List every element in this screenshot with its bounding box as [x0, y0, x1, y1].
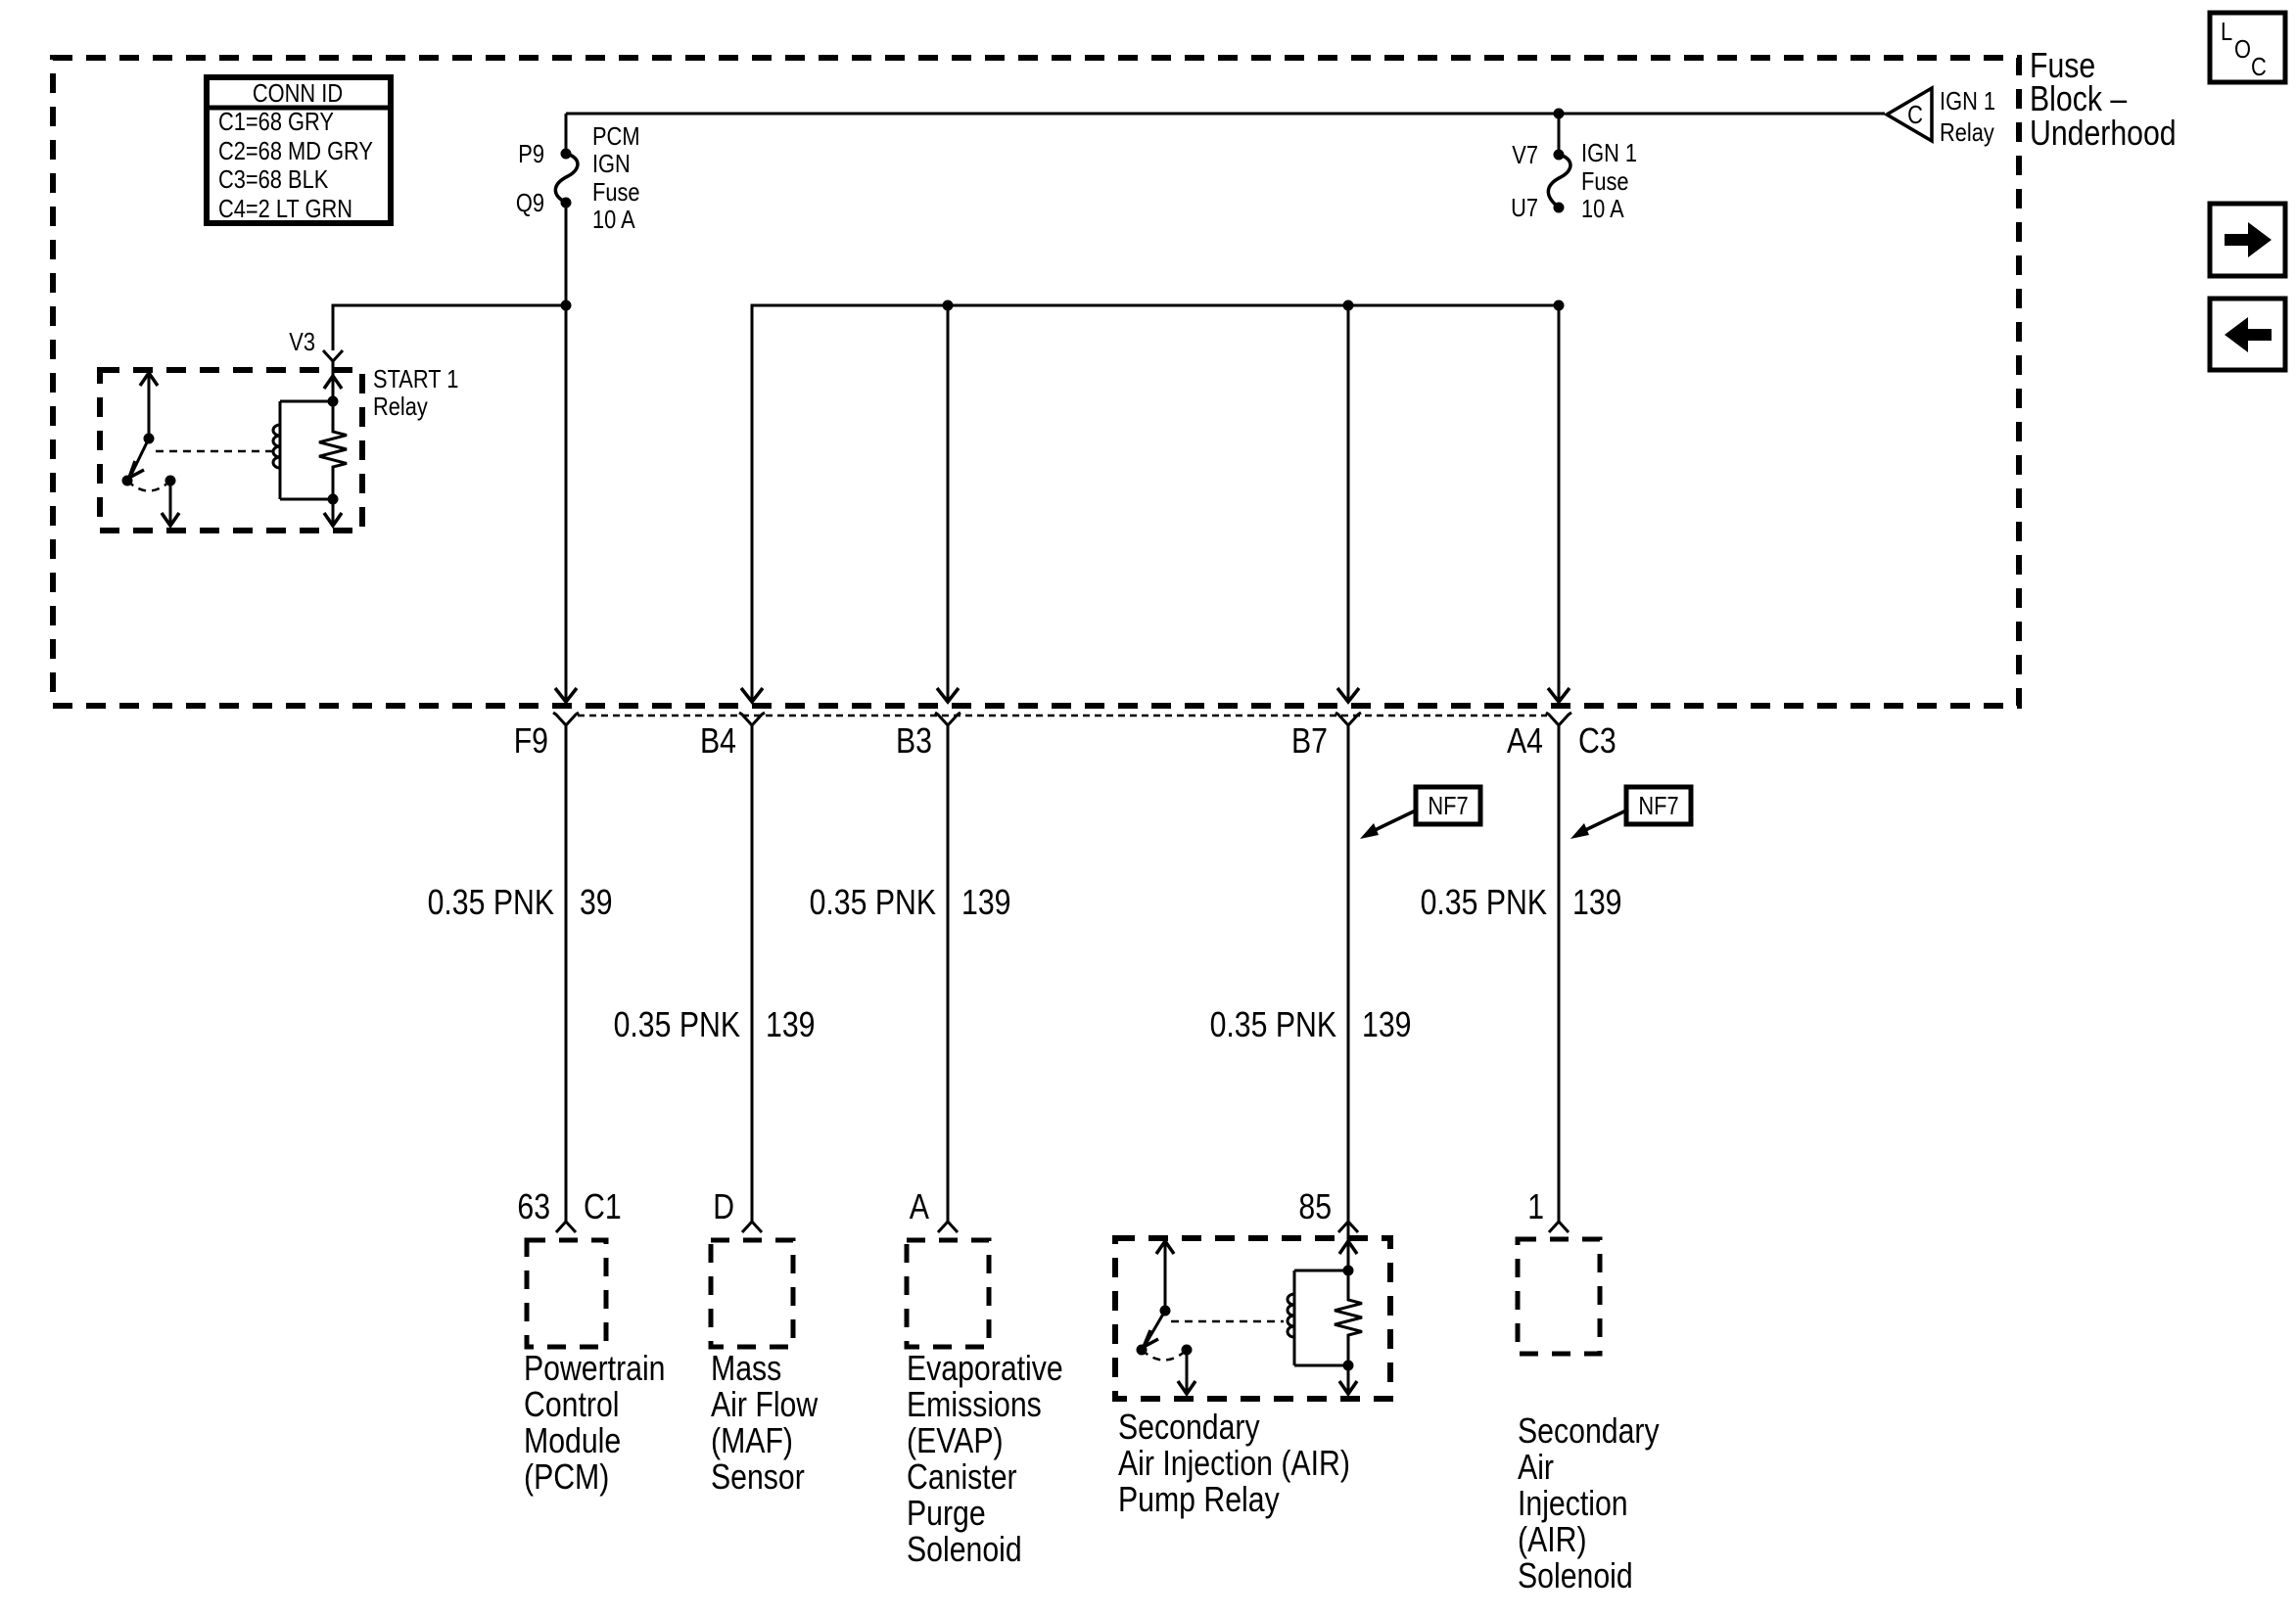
wire 139 PNK drop to AIR solenoid	[1558, 725, 1561, 1222]
wire 39 PNK drop to PCM	[565, 725, 568, 1222]
wire 139 PNK drop to AIR pump relay	[1347, 725, 1350, 1277]
svg-text:Pump Relay: Pump Relay	[1118, 1479, 1280, 1519]
svg-text:U7: U7	[1511, 193, 1538, 222]
svg-text:C1=68 GRY: C1=68 GRY	[218, 107, 334, 136]
navigation box arrow left	[2210, 299, 2285, 370]
svg-text:IGN 1: IGN 1	[1581, 138, 1637, 167]
svg-text:Module: Module	[524, 1420, 621, 1460]
connector F9	[553, 713, 579, 725]
NF7 reference box left	[1360, 787, 1480, 839]
svg-text:Powertrain: Powertrain	[524, 1348, 666, 1388]
svg-text:IGN 1: IGN 1	[1940, 86, 1995, 115]
svg-text:39: 39	[580, 882, 613, 922]
svg-text:PCM: PCM	[592, 121, 640, 151]
wire B7 inside fuse block	[1347, 305, 1350, 702]
wire label 0.35 PNK 39	[428, 882, 613, 922]
wire 139 PNK drop to EVAP solenoid	[947, 725, 950, 1222]
svg-text:Mass: Mass	[711, 1348, 781, 1388]
svg-text:(PCM): (PCM)	[524, 1456, 609, 1497]
svg-text:139: 139	[1362, 1004, 1412, 1044]
junction on top bus at IGN 1 fuse	[1554, 109, 1565, 119]
svg-text:85: 85	[1298, 1186, 1332, 1226]
junction right bus / IGN 1 fuse wire	[1554, 300, 1565, 311]
wire label 0.35 PNK 139 at B4	[614, 1004, 816, 1044]
svg-text:L: L	[2221, 17, 2232, 46]
PCM IGN fuse 10 A	[516, 114, 640, 234]
svg-text:D: D	[713, 1186, 734, 1226]
svg-text:139: 139	[961, 882, 1011, 922]
svg-text:1: 1	[1527, 1186, 1544, 1226]
START 1 relay	[100, 361, 458, 531]
svg-text:Purge: Purge	[907, 1493, 986, 1533]
label: Fuse Block - Underhood	[2030, 45, 2177, 153]
svg-text:C2=68 MD GRY: C2=68 MD GRY	[218, 136, 373, 165]
wire label 0.35 PNK 139 at B3	[810, 882, 1011, 922]
svg-text:0.35 PNK: 0.35 PNK	[1210, 1004, 1336, 1044]
svg-text:0.35 PNK: 0.35 PNK	[614, 1004, 740, 1044]
svg-text:P9: P9	[518, 139, 544, 168]
wire: top ignition feed bus from IGN 1 relay	[566, 113, 1885, 115]
svg-text:V7: V7	[1512, 140, 1538, 169]
EVAP canister purge solenoid connector box	[907, 1240, 1063, 1569]
svg-text:NF7: NF7	[1638, 791, 1678, 820]
svg-text:C4=2 LT GRN: C4=2 LT GRN	[218, 194, 352, 223]
svg-text:B3: B3	[896, 720, 932, 761]
fuse block underhood dashed border	[53, 58, 2019, 706]
connector B3	[935, 713, 961, 725]
svg-text:Air Flow: Air Flow	[711, 1384, 819, 1424]
svg-text:Solenoid: Solenoid	[1518, 1555, 1633, 1595]
wire label 0.35 PNK 139 at B7	[1210, 1004, 1412, 1044]
junction of PCM IGN fuse wire and left bus	[561, 300, 572, 311]
LOC locator box	[2210, 13, 2285, 82]
svg-text:Canister: Canister	[907, 1456, 1017, 1497]
svg-text:Relay: Relay	[1940, 117, 1994, 147]
Secondary Air Injection AIR pump relay	[1115, 1238, 1390, 1519]
junction right bus / B3 wire	[943, 300, 954, 311]
wire label 0.35 PNK 139 at C3	[1421, 882, 1622, 922]
Powertrain Control Module PCM connector box	[524, 1240, 666, 1497]
svg-text:Evaporative: Evaporative	[907, 1348, 1063, 1388]
svg-text:F9: F9	[514, 720, 548, 761]
svg-text:63: 63	[517, 1186, 550, 1226]
svg-text:Control: Control	[524, 1384, 620, 1424]
svg-text:V3: V3	[289, 327, 315, 356]
svg-text:C: C	[1907, 100, 1923, 129]
svg-text:Injection: Injection	[1518, 1483, 1628, 1523]
svg-text:NF7: NF7	[1428, 791, 1468, 820]
connector A4/C3	[1546, 713, 1571, 725]
svg-text:0.35 PNK: 0.35 PNK	[1421, 882, 1547, 922]
fuse block connector row dashed line	[578, 715, 1547, 717]
connector B7	[1335, 713, 1361, 725]
svg-text:Emissions: Emissions	[907, 1384, 1042, 1424]
svg-text:Air Injection (AIR): Air Injection (AIR)	[1118, 1443, 1350, 1483]
svg-text:0.35 PNK: 0.35 PNK	[810, 882, 936, 922]
svg-text:(AIR): (AIR)	[1518, 1519, 1587, 1559]
svg-text:C3: C3	[1578, 720, 1617, 761]
NF7 reference box right	[1570, 787, 1691, 839]
wire F9: PCM IGN fuse output inside fuse block	[565, 203, 568, 702]
svg-text:C: C	[2251, 52, 2267, 81]
Secondary Air Injection AIR solenoid connector box	[1518, 1239, 1660, 1595]
svg-text:START 1: START 1	[373, 364, 458, 393]
svg-text:C1: C1	[584, 1186, 622, 1226]
wire B3 inside fuse block	[947, 305, 950, 702]
svg-text:C3=68 BLK: C3=68 BLK	[218, 164, 329, 194]
svg-text:Air: Air	[1518, 1447, 1554, 1487]
svg-text:10 A: 10 A	[1581, 194, 1624, 223]
left bus wire to START 1 relay	[333, 305, 566, 350]
right bus wire from IGN 1 fuse	[752, 305, 1559, 702]
svg-text:Secondary: Secondary	[1118, 1407, 1260, 1447]
svg-text:10 A: 10 A	[592, 205, 635, 234]
navigation box arrow right	[2210, 204, 2285, 276]
node V3 connector	[289, 327, 343, 361]
svg-text:(MAF): (MAF)	[711, 1420, 793, 1460]
wire 139 PNK drop to MAF sensor	[751, 725, 754, 1222]
triangle connector C to IGN 1 relay	[1887, 86, 1995, 147]
svg-text:Fuse: Fuse	[592, 177, 640, 207]
svg-text:(EVAP): (EVAP)	[907, 1420, 1004, 1460]
wire C3 inside fuse block	[1558, 305, 1561, 702]
svg-text:A4: A4	[1507, 720, 1543, 761]
svg-text:A: A	[910, 1186, 929, 1226]
svg-text:0.35 PNK: 0.35 PNK	[428, 882, 554, 922]
svg-text:O: O	[2234, 34, 2251, 64]
svg-text:IGN: IGN	[592, 149, 631, 178]
svg-text:Solenoid: Solenoid	[907, 1529, 1022, 1569]
svg-text:Relay: Relay	[373, 392, 428, 421]
junction right bus / B7 wire	[1343, 300, 1354, 311]
svg-text:Secondary: Secondary	[1518, 1410, 1660, 1451]
Mass Air Flow MAF sensor connector box	[711, 1240, 819, 1497]
svg-text:Sensor: Sensor	[711, 1456, 805, 1497]
svg-text:B7: B7	[1291, 720, 1328, 761]
svg-text:139: 139	[766, 1004, 816, 1044]
svg-text:139: 139	[1572, 882, 1622, 922]
svg-text:Q9: Q9	[516, 188, 544, 217]
svg-text:Fuse: Fuse	[1581, 166, 1629, 196]
svg-text:CONN ID: CONN ID	[253, 78, 343, 108]
svg-text:Underhood: Underhood	[2030, 113, 2177, 153]
IGN 1 fuse 10 A	[1511, 114, 1637, 223]
svg-text:B4: B4	[700, 720, 736, 761]
CONN ID table	[207, 77, 391, 223]
connector B4	[739, 713, 765, 725]
